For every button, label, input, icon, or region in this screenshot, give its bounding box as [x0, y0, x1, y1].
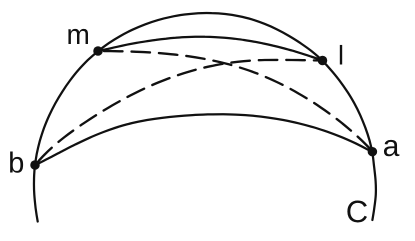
- point a (dot): [368, 147, 378, 157]
- arc m-l (solid chord arc): [98, 37, 323, 61]
- label a: [384, 140, 399, 156]
- label C: [347, 201, 367, 223]
- point m (dot): [93, 46, 103, 56]
- point b (dot): [30, 160, 40, 170]
- arc b-a (solid chord arc): [35, 114, 372, 165]
- label b: [10, 151, 23, 172]
- arc b-l (dashed chord arc): [35, 60, 323, 165]
- label l: [340, 45, 342, 65]
- circle C (large arc): [34, 13, 376, 222]
- label m: [68, 29, 88, 44]
- arc m-a (dashed chord arc): [98, 51, 373, 151]
- point l (dot): [318, 56, 328, 66]
